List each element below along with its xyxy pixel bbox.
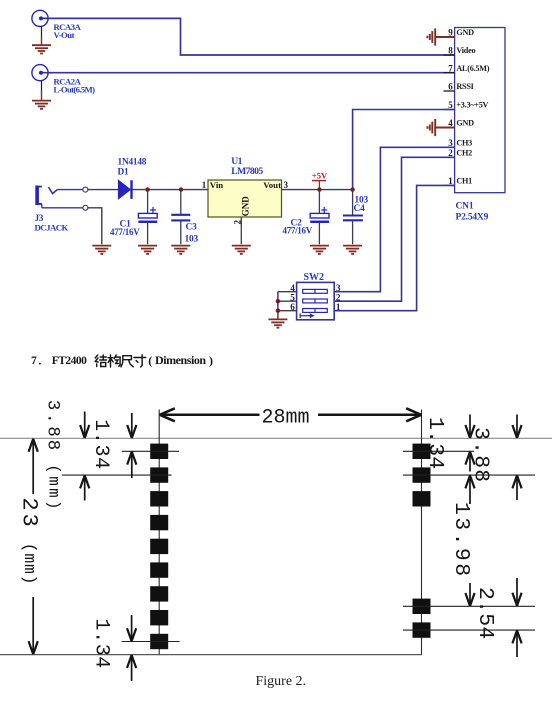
svg-text:V-Out: V-Out xyxy=(54,30,75,40)
CN1 pin stubs xyxy=(444,37,455,185)
svg-text:1.34: 1.34 xyxy=(423,417,447,469)
svg-text:SW2: SW2 xyxy=(304,272,325,283)
switch SW2 body xyxy=(297,282,335,319)
svg-text:DCJACK: DCJACK xyxy=(35,222,69,232)
svg-text:3: 3 xyxy=(448,138,453,148)
label RCA3A / V-Out xyxy=(54,22,82,40)
connector CN1 box xyxy=(455,28,505,193)
svg-text:CH3: CH3 xyxy=(456,139,472,148)
ground (C4) xyxy=(343,246,362,254)
wire RCA2A to CN1 pin 7 (AL 6.5M) xyxy=(43,72,455,74)
svg-text:+3.3~+5V: +3.3~+5V xyxy=(456,101,488,110)
svg-text:3.88: 3.88 xyxy=(42,400,61,453)
svg-text:477/16V: 477/16V xyxy=(110,227,140,237)
wire CN1 pin3 CH3 to SW2 pin3 xyxy=(334,147,454,291)
ground (C3) xyxy=(171,246,190,254)
svg-text:1: 1 xyxy=(336,303,341,313)
heading CJK text 结构尺寸 (drawn) xyxy=(95,355,146,367)
ground (U1) xyxy=(232,246,251,254)
svg-text:.: . xyxy=(39,356,42,368)
svg-text:5: 5 xyxy=(290,294,295,304)
svg-text:2: 2 xyxy=(448,148,453,158)
heading: 7. FT2400 structure dimension xyxy=(31,355,87,368)
svg-text:(: ( xyxy=(148,354,152,368)
power symbol +5V xyxy=(312,181,326,190)
wire RCA3A to CN1 pin 8 (Video) xyxy=(43,18,455,55)
dimension 28mm arrow line xyxy=(160,408,421,421)
svg-text:CH2: CH2 xyxy=(456,149,472,158)
svg-text:Vin: Vin xyxy=(210,180,223,190)
dimension 1.34 arrows left-bottom xyxy=(127,615,136,641)
svg-text:FT2400: FT2400 xyxy=(52,355,87,367)
svg-text:1.34: 1.34 xyxy=(90,619,113,669)
pad center reference lines xyxy=(62,451,535,641)
label J3 / DCJACK xyxy=(35,214,69,233)
wire J3 bottom contact xyxy=(41,204,43,208)
SW2 position indicator xyxy=(300,313,313,318)
node junction at C4 / pin5 wire xyxy=(350,187,354,191)
capacitor C3 103 xyxy=(180,190,182,214)
node: open junction top xyxy=(83,187,88,192)
svg-text:GND: GND xyxy=(456,28,474,37)
ground (C1) xyxy=(138,246,157,254)
svg-text:Video: Video xyxy=(456,46,475,55)
left pad column (9 pads) xyxy=(150,444,168,650)
node junction SW2 pin6 xyxy=(276,309,280,313)
svg-text:1: 1 xyxy=(448,176,453,186)
ground (CN1 pin 9) xyxy=(427,28,454,45)
node junction at C1 xyxy=(145,187,149,191)
dimension 3.88(mm) arrows left xyxy=(80,412,89,439)
dimension 1.34 arrows right xyxy=(465,415,474,439)
svg-text:13.98: 13.98 xyxy=(449,502,473,579)
connector J3 DC jack xyxy=(36,186,42,205)
svg-text:1.34: 1.34 xyxy=(89,419,112,469)
svg-text:1N4148: 1N4148 xyxy=(118,158,147,168)
svg-text:6: 6 xyxy=(290,303,295,313)
dimension 2.54 arrows xyxy=(512,578,521,606)
wire J3 top contact xyxy=(57,189,82,191)
svg-text:28mm: 28mm xyxy=(262,407,310,430)
wire U1 Vout rail xyxy=(282,189,353,191)
svg-text:7: 7 xyxy=(31,355,37,367)
svg-text:GND: GND xyxy=(456,119,474,128)
connector RCA2A xyxy=(32,65,48,81)
svg-text:): ) xyxy=(209,354,213,368)
capacitor C1 477/16V xyxy=(147,190,149,214)
wire CN1 pin5 (+3.3~+5V) to +5V rail xyxy=(353,110,455,190)
dimension 13.98 arrows xyxy=(465,475,474,504)
ground (SW2) xyxy=(268,319,287,327)
ground (C2) xyxy=(310,246,329,254)
dimension 3.88 arrows right xyxy=(512,415,521,439)
svg-text:3: 3 xyxy=(336,284,341,294)
svg-text:8: 8 xyxy=(448,46,453,56)
label CN1 / P2.54X9 xyxy=(456,202,489,223)
dimension figure: right pad column centerline xyxy=(421,410,423,655)
svg-text:3.88: 3.88 xyxy=(469,427,493,483)
SW2 switch elements xyxy=(303,289,328,312)
ground (RCA3A) xyxy=(32,45,51,53)
svg-text:+5V: +5V xyxy=(312,171,328,181)
svg-text:103: 103 xyxy=(185,235,199,245)
svg-text:C3: C3 xyxy=(186,223,198,233)
svg-text:(mm): (mm) xyxy=(45,464,63,512)
svg-text:CH1: CH1 xyxy=(456,177,472,186)
label 103 / C4 xyxy=(354,196,369,215)
wire rail J3 to U1 Vin xyxy=(88,189,208,191)
svg-text:Vout: Vout xyxy=(263,180,281,190)
svg-text:23: 23 xyxy=(17,498,42,530)
svg-text:1: 1 xyxy=(202,180,207,190)
label C3 / 103 xyxy=(185,223,199,245)
svg-text:C4: C4 xyxy=(354,204,366,214)
svg-text:2.54: 2.54 xyxy=(473,587,497,639)
dimension 23(mm) arrows xyxy=(29,439,38,494)
svg-text:LM7805: LM7805 xyxy=(231,166,263,177)
capacitor C2 477/16V xyxy=(318,190,320,214)
CN1 pin numbers 9..1 xyxy=(448,28,453,186)
J3 switch contact xyxy=(49,187,58,193)
svg-text:4: 4 xyxy=(290,284,295,294)
svg-text:P2.54X9: P2.54X9 xyxy=(456,213,489,223)
label RCA2A / L-Out(6.5M) xyxy=(54,77,96,95)
right pad column (5 pads) xyxy=(413,444,431,638)
ground (CN1 pin 4) xyxy=(427,119,454,136)
wire RCA3A ground stub xyxy=(41,26,43,36)
ground (RCA2A) xyxy=(32,101,51,109)
CN1 pin names xyxy=(456,28,489,185)
label C2 / 477/16V xyxy=(283,219,313,236)
svg-text:477/16V: 477/16V xyxy=(283,226,313,236)
dimension 1.34 arrows left-top xyxy=(127,413,136,438)
wire U1 GND pin to ground xyxy=(240,217,242,244)
node junction at C3 xyxy=(179,187,183,191)
diode D1 1N4148 xyxy=(118,180,131,199)
op-amp/regulator U1 LM7805 body xyxy=(208,180,282,217)
heading (Dimension) xyxy=(148,353,213,368)
dimension figure: left pad column centerline xyxy=(158,410,160,655)
node junction SW2 pin5 xyxy=(276,299,280,303)
connector RCA3A xyxy=(32,10,48,26)
svg-text:5: 5 xyxy=(448,100,453,110)
svg-text:6: 6 xyxy=(448,82,453,92)
node: open junction bottom xyxy=(83,205,88,210)
wire bottom contact to ground xyxy=(88,208,102,244)
capacitor C4 103 xyxy=(352,190,354,215)
wire SW2 common to ground xyxy=(277,292,279,311)
svg-text:7: 7 xyxy=(448,63,453,73)
label U1 / LM7805 xyxy=(231,156,263,177)
svg-text:2: 2 xyxy=(336,294,341,304)
svg-text:L-Out(6.5M): L-Out(6.5M) xyxy=(54,85,96,95)
svg-text:CN1: CN1 xyxy=(456,202,474,212)
label 1N4148 / D1 xyxy=(118,158,147,178)
ground (J3) xyxy=(92,246,111,254)
wire CN1 pin1 CH1 to SW2 pin1 xyxy=(334,185,454,310)
svg-text:GND: GND xyxy=(241,196,251,217)
wire CN1 pin2 CH2 to SW2 pin2 xyxy=(334,157,454,301)
SW2 pin numbers xyxy=(290,284,341,313)
dimension figure: bottom reference line xyxy=(0,654,422,656)
SW2 left pin stubs 4,5,6 xyxy=(278,292,297,311)
node junction at C2 xyxy=(317,187,321,191)
svg-text:3: 3 xyxy=(284,180,289,190)
svg-text:(mm): (mm) xyxy=(20,543,39,585)
wire RCA2A ground stub xyxy=(41,81,43,90)
svg-text:Figure 2.: Figure 2. xyxy=(256,674,307,689)
label C1 / 477/16V xyxy=(110,220,140,238)
svg-text:RSSI: RSSI xyxy=(456,82,473,91)
dimension figure: top reference line xyxy=(0,437,552,439)
svg-text:AL(6.5M): AL(6.5M) xyxy=(456,64,489,73)
svg-text:D1: D1 xyxy=(118,168,130,178)
svg-text:Dimension: Dimension xyxy=(155,353,206,367)
